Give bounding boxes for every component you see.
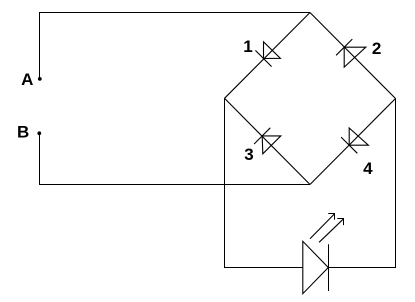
svg-text:2: 2 xyxy=(372,39,381,58)
svg-text:4: 4 xyxy=(363,159,373,178)
svg-text:3: 3 xyxy=(244,145,253,164)
svg-text:A: A xyxy=(21,70,33,89)
diode D3 xyxy=(254,128,281,154)
wire LED cathode to right rail and up to bridge right vertex xyxy=(328,99,395,268)
terminal A dot xyxy=(38,77,42,81)
wire bridge arm bottom-right xyxy=(310,99,396,185)
LED arrow 1 xyxy=(310,214,335,239)
LED arrow 2 xyxy=(319,219,344,243)
wire bridge arm top-left xyxy=(225,13,311,99)
wire bridge arm top-right xyxy=(310,13,396,99)
terminal B dot xyxy=(37,131,41,135)
wire bridge arm bottom-left xyxy=(225,98,311,184)
wire from A up and right to bridge top xyxy=(40,13,311,80)
svg-text:1: 1 xyxy=(243,37,252,56)
svg-text:B: B xyxy=(17,123,29,142)
diode D4 xyxy=(341,128,368,153)
LED D5 xyxy=(303,241,329,293)
diode D2 xyxy=(336,39,366,67)
wire from B down and right to bridge bottom xyxy=(40,133,311,184)
diode D1 xyxy=(255,42,280,67)
wire bridge left vertex down to bottom rail xyxy=(225,98,303,267)
